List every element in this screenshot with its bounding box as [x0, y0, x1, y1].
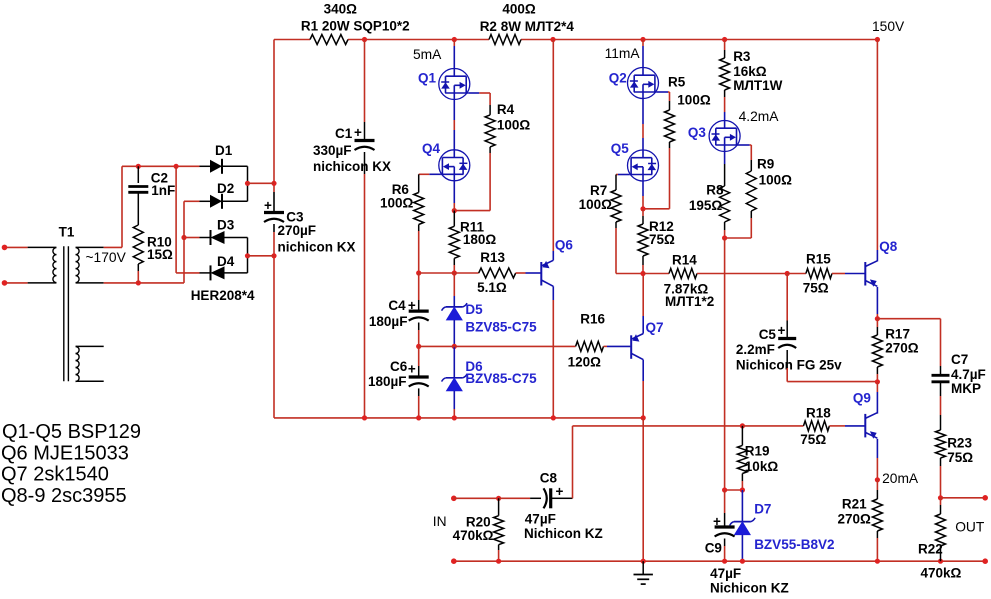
svg-text:R14: R14 [672, 253, 697, 268]
svg-text:120Ω: 120Ω [568, 355, 602, 370]
svg-text:+: + [408, 361, 416, 376]
svg-text:340Ω: 340Ω [324, 2, 358, 17]
resistor R18 [800, 406, 831, 448]
svg-text:МЛТ1*2: МЛТ1*2 [665, 294, 714, 309]
wire C6 to bottom rail [418, 388, 420, 418]
transistor Q1 [418, 68, 479, 100]
capacitor C7 [932, 352, 986, 396]
resistor R7 [579, 183, 621, 228]
resistor R19 [737, 426, 778, 490]
svg-text:Nichicon KZ: Nichicon KZ [524, 526, 603, 541]
node R23 R22 junction [938, 495, 985, 500]
terminal IN top [451, 496, 499, 502]
capacitor C3 [264, 198, 356, 254]
svg-text:100Ω: 100Ω [579, 197, 613, 212]
svg-text:330µF: 330µF [313, 143, 352, 158]
transistor Q4 [422, 141, 470, 181]
svg-text:270µF: 270µF [278, 223, 317, 238]
svg-text:R18: R18 [806, 406, 831, 421]
terminal IN bottom [451, 558, 457, 564]
svg-text:D4: D4 [217, 254, 235, 269]
terminal OUT top [982, 495, 988, 501]
wire D4 left lead [176, 272, 199, 274]
resistor R5 [665, 75, 711, 148]
wire C5 top lead [786, 274, 788, 338]
resistor R14 [664, 253, 715, 310]
wire Q1 source to R4 [479, 93, 490, 105]
svg-text:BZV85-C75: BZV85-C75 [465, 371, 537, 386]
svg-text:270Ω: 270Ω [838, 511, 872, 526]
svg-text:МЛТ1W: МЛТ1W [733, 78, 782, 93]
svg-text:C9: C9 [705, 540, 722, 555]
wire C8 to line B [563, 426, 573, 498]
svg-text:+: + [264, 198, 272, 213]
resistor R20 [453, 498, 504, 561]
wire R7 bottom to node [616, 228, 643, 274]
capacitor C5 [736, 323, 842, 373]
transistor Q8 [865, 239, 897, 287]
wire C1 bottom lead [364, 152, 366, 418]
svg-text:R9: R9 [757, 157, 774, 172]
svg-text:75Ω: 75Ω [649, 232, 675, 247]
svg-text:IN: IN [433, 514, 447, 529]
svg-text:100Ω: 100Ω [380, 196, 414, 211]
wire D4 anode corner [247, 256, 249, 273]
legend transistor types [1, 421, 141, 507]
wire D3 left lead [181, 235, 199, 240]
wire Q2 source to R5 [668, 92, 670, 101]
wire R4 bottom to gate node [452, 153, 490, 213]
wire Q7 collector down [642, 360, 644, 418]
svg-text:Q9: Q9 [853, 391, 871, 406]
wire Q6 collector down [552, 286, 554, 418]
diode D4 [200, 254, 248, 280]
diode D1 [200, 143, 248, 174]
wire line A to ground rail [642, 418, 644, 561]
transistor Q3 [688, 120, 750, 152]
wire Q9 emitter down [875, 439, 880, 490]
resistor R16 [568, 312, 606, 370]
svg-text:R15: R15 [806, 252, 831, 267]
transformer T1 secondary top winding [76, 247, 127, 283]
svg-text:4.2mA: 4.2mA [739, 109, 780, 124]
resistor R10 [133, 192, 173, 283]
svg-text:nichicon KX: nichicon KX [278, 239, 356, 254]
svg-text:Q1-Q5 BSP129: Q1-Q5 BSP129 [2, 421, 141, 443]
wire minus bottom rail [274, 415, 646, 420]
svg-text:150V: 150V [872, 19, 905, 34]
svg-text:100Ω: 100Ω [677, 92, 711, 107]
transformer T1 primary winding [28, 247, 57, 283]
wire R14 to C5 node [697, 271, 790, 276]
wire secondary bottom AC2 [104, 280, 184, 285]
node R17 bottom [875, 379, 880, 384]
wire node to C4 [418, 273, 420, 310]
node R20 top [496, 496, 530, 501]
svg-text:15Ω: 15Ω [147, 247, 173, 262]
resistor R21 [838, 490, 883, 561]
svg-text:C1: C1 [335, 126, 353, 141]
wire ground rail [454, 559, 985, 564]
label 11mA [605, 46, 641, 61]
svg-text:Nichicon KZ: Nichicon KZ [710, 581, 789, 596]
wire AC2 up column [183, 201, 185, 283]
ground symbol [634, 561, 653, 584]
svg-text:+: + [713, 514, 721, 529]
svg-text:R1 20W SQP10*2: R1 20W SQP10*2 [301, 18, 410, 33]
wire D6 to bottom rail [453, 391, 455, 418]
svg-text:Q6: Q6 [555, 238, 574, 253]
svg-text:C4: C4 [388, 298, 406, 313]
svg-text:+: + [778, 323, 786, 338]
capacitor C8 [524, 470, 603, 541]
svg-text:400Ω: 400Ω [502, 2, 536, 17]
label 4.2mA [739, 109, 780, 124]
wire node to D5 [453, 273, 455, 307]
label HER208*4 [191, 288, 255, 303]
wire input line B [573, 423, 746, 428]
svg-text:+: + [556, 484, 564, 499]
wire left column upper (+ rail to C3) [271, 40, 276, 213]
svg-text:195Ω: 195Ω [689, 198, 723, 213]
svg-text:Q8: Q8 [879, 239, 898, 254]
node 150V label [872, 19, 905, 34]
wire Q5 gate down [640, 181, 645, 211]
transistor Q6 [541, 238, 573, 287]
svg-text:D3: D3 [217, 218, 235, 233]
wire C7 to R23 [940, 383, 942, 430]
svg-text:MKP: MKP [951, 381, 981, 396]
svg-text:Q7: Q7 [646, 320, 664, 335]
svg-text:75Ω: 75Ω [947, 450, 973, 465]
resistor R8 [689, 183, 730, 238]
svg-text:R16: R16 [580, 312, 605, 327]
capacitor C4 [369, 298, 429, 329]
svg-text:R2 8W МЛТ2*4: R2 8W МЛТ2*4 [480, 19, 575, 34]
capacitor C9 [705, 490, 789, 596]
svg-text:R21: R21 [842, 497, 867, 512]
svg-text:Q3: Q3 [688, 125, 707, 140]
resistor R22 [918, 498, 962, 581]
svg-text:5mA: 5mA [413, 47, 442, 62]
wire Q8 collector to rail [876, 40, 878, 262]
resistor R6 [380, 182, 424, 231]
resistor R9 [746, 157, 792, 218]
wire R16 to Q7 base [604, 345, 631, 347]
wire 150V top rail [274, 39, 877, 41]
svg-text:C5: C5 [759, 327, 777, 342]
svg-text:Q6 MJE15033: Q6 MJE15033 [1, 443, 129, 465]
svg-text:16kΩ: 16kΩ [733, 64, 767, 79]
svg-text:47µF: 47µF [710, 566, 741, 581]
zener diode D5 [442, 302, 538, 335]
resistor R13 [477, 250, 516, 295]
resistor R1 [301, 2, 410, 45]
transformer T1 secondary bottom winding [76, 346, 104, 381]
wire C5 node to R15 [787, 273, 806, 275]
transistor Q2 [609, 67, 668, 99]
wire link C9 D7 node [722, 487, 745, 492]
transistor Q9 [853, 391, 877, 439]
svg-text:C7: C7 [951, 352, 968, 367]
wire Q1 gate to Q4 drain [453, 100, 455, 150]
svg-text:R3: R3 [733, 49, 751, 64]
svg-text:R19: R19 [745, 443, 770, 458]
svg-text:Nichicon FG 25v: Nichicon FG 25v [736, 358, 842, 373]
wire C5 bottom lead [787, 350, 877, 382]
label 20mA [882, 471, 919, 486]
svg-text:Q1: Q1 [418, 71, 437, 86]
wire bridge minus to C3 [245, 253, 274, 258]
wire rail to Q2 drain [642, 40, 644, 68]
wire Q4 gate down [453, 181, 455, 211]
svg-text:R17: R17 [885, 327, 910, 342]
svg-text:10kΩ: 10kΩ [745, 459, 779, 474]
transistor Q5 [611, 141, 659, 181]
terminal input left top [2, 245, 28, 251]
svg-text:D7: D7 [754, 502, 771, 517]
svg-text:D2: D2 [217, 181, 234, 196]
svg-text:T1: T1 [59, 225, 75, 240]
svg-text:R7: R7 [590, 183, 607, 198]
svg-text:R23: R23 [947, 436, 972, 451]
wire AC1 down column [175, 166, 177, 273]
svg-text:2.2mF: 2.2mF [736, 342, 775, 357]
svg-text:100Ω: 100Ω [759, 173, 793, 188]
wire Q7 emitter up [642, 274, 644, 334]
wire bridge plus to C3 [245, 181, 274, 186]
svg-text:BZV85-C75: BZV85-C75 [465, 319, 537, 334]
svg-text:Q2: Q2 [609, 71, 627, 86]
svg-text:1nF: 1nF [151, 183, 175, 198]
capacitor C2 [128, 166, 175, 198]
capacitor C6 [368, 359, 429, 389]
svg-text:470kΩ: 470kΩ [921, 565, 962, 580]
wire R5 bottom to node [643, 148, 670, 209]
wire R9 bottom to node [725, 218, 752, 238]
svg-text:D5: D5 [465, 302, 483, 317]
wire R15 to Q8 base [832, 273, 865, 275]
wire R6 bottom to node [416, 231, 421, 276]
svg-text:47µF: 47µF [525, 511, 556, 526]
svg-text:20mA: 20mA [882, 471, 919, 486]
resistor R23 [936, 430, 974, 498]
svg-text:HER208*4: HER208*4 [191, 288, 255, 303]
wire D2 cathode corner [247, 183, 249, 201]
resistor R17 [872, 319, 918, 382]
zener diode D6 [442, 346, 538, 390]
svg-text:Q4: Q4 [422, 141, 441, 156]
svg-text:180Ω: 180Ω [463, 232, 497, 247]
wire mid node to C6 [418, 346, 420, 376]
capacitor C1 [313, 125, 391, 174]
transistor Q7 [631, 320, 663, 360]
junction dots top rail [362, 37, 880, 42]
wire Q3 gate to R8 [724, 152, 726, 186]
resistor R3 [720, 40, 783, 98]
wire C1 top lead [364, 40, 366, 141]
label 5mA [413, 47, 442, 62]
terminal OUT bottom [982, 558, 988, 564]
svg-text:nichicon KX: nichicon KX [313, 159, 391, 174]
wire line B to R18 [742, 425, 803, 427]
wire R13 to Q6 base [516, 272, 541, 274]
wire Q9 collector [876, 382, 878, 414]
wire Q6 emitter to rail [552, 40, 554, 261]
wire mid line [419, 345, 576, 347]
resistor R4 [485, 102, 530, 153]
wire rail to Q1 drain [453, 40, 455, 69]
svg-text:+: + [408, 298, 416, 313]
svg-text:D1: D1 [215, 143, 233, 158]
svg-text:Q8-9 2sc3955: Q8-9 2sc3955 [1, 485, 127, 507]
wire Q5 source to R7 [616, 175, 618, 191]
resistor R11 [449, 211, 496, 273]
diode D3 [200, 218, 248, 246]
wire AC1 top line [122, 164, 200, 169]
wire D5 to mid node [452, 320, 457, 349]
svg-text:R13: R13 [480, 250, 505, 265]
wire Q8 emitter down [875, 287, 880, 321]
svg-text:R5: R5 [668, 75, 686, 90]
svg-text:R8: R8 [706, 183, 724, 198]
svg-text:Q7 2sk1540: Q7 2sk1540 [1, 463, 109, 485]
wire Q3 source to R9 [750, 145, 752, 160]
wire D3 anode corner [247, 238, 249, 256]
resistor R2 [480, 2, 575, 45]
svg-text:BZV55-B8V2: BZV55-B8V2 [754, 537, 834, 552]
wire secondary top to AC1 node [104, 166, 122, 247]
diode D2 [200, 181, 248, 209]
wire left column lower (C3 to bottom rail) [271, 224, 276, 418]
svg-text:~170V: ~170V [86, 250, 127, 265]
wire Q8 node to C7 [877, 319, 940, 366]
svg-text:C6: C6 [390, 359, 408, 374]
wire D2 left lead [184, 200, 200, 202]
label OUT [955, 520, 985, 535]
wire node R11 to R13 [419, 270, 479, 275]
wire R18 to Q9 base [829, 425, 864, 427]
wire node to R14 [643, 273, 669, 275]
wire Q2 gate to Q5 drain [642, 99, 644, 150]
wire D1 cathode corner [247, 166, 249, 183]
svg-text:180µF: 180µF [368, 374, 407, 389]
svg-text:Q5: Q5 [611, 141, 630, 156]
node R12 bottom junction [640, 271, 645, 276]
svg-text:75Ω: 75Ω [800, 432, 826, 447]
resistor R12 [638, 209, 675, 274]
wire R3 to Q3 drain [724, 97, 726, 120]
svg-text:75Ω: 75Ω [803, 280, 829, 295]
svg-text:270Ω: 270Ω [885, 341, 919, 356]
label IN [433, 514, 447, 529]
svg-text:470kΩ: 470kΩ [453, 528, 494, 543]
svg-text:R22: R22 [918, 542, 943, 557]
svg-text:+: + [354, 125, 362, 140]
svg-text:4.7µF: 4.7µF [951, 367, 986, 382]
svg-text:180µF: 180µF [369, 314, 408, 329]
svg-text:R4: R4 [497, 102, 515, 117]
terminal input left bottom [2, 280, 28, 286]
resistor R15 [803, 252, 832, 296]
svg-text:100Ω: 100Ω [497, 117, 531, 132]
transformer T1 core [59, 225, 75, 382]
wire C4 to mid node [416, 323, 421, 350]
svg-text:11mA: 11mA [605, 46, 641, 61]
wire Q4 source to R6 [419, 174, 430, 192]
svg-text:5.1Ω: 5.1Ω [477, 280, 507, 295]
wire R8 node down to C9 [724, 238, 726, 490]
zener diode D7 [730, 490, 835, 561]
node R8 R9 junction [722, 235, 727, 240]
svg-text:OUT: OUT [955, 520, 985, 535]
